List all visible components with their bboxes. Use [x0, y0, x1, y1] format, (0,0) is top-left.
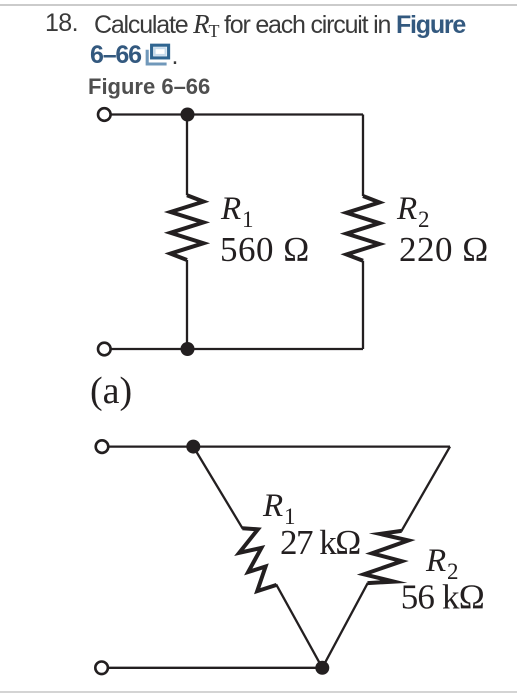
problem number 18: [45, 11, 78, 36]
svg-text:56 kΩ: 56 kΩ: [401, 578, 484, 617]
svg-text:27 kΩ: 27 kΩ: [280, 523, 360, 562]
wire: circuit (a) right vertical top: [362, 115, 364, 197]
svg-text:R: R: [220, 191, 241, 227]
problem text line 1: [94, 11, 465, 38]
junction node: circuit (a) bottom: [181, 342, 195, 356]
svg-text:220 Ω: 220 Ω: [399, 230, 489, 269]
resistor R2 220 ohm: [347, 196, 380, 261]
wire: circuit (b) right diagonal lower: [322, 583, 368, 668]
wire: circuit (b) right diagonal upper: [401, 447, 450, 532]
popup window icon: [144, 42, 174, 68]
wire: circuit (a) bottom rail: [110, 348, 363, 350]
resistor R1 27 kohm (diagonal): [239, 528, 276, 591]
svg-text:R: R: [396, 191, 417, 227]
wire: circuit (b) top rail: [109, 445, 451, 447]
svg-text:560 Ω: 560 Ω: [220, 230, 310, 269]
junction node: circuit (b) top: [186, 440, 200, 454]
terminal: circuit (b) bottom-left open circle: [95, 662, 108, 675]
svg-text:R: R: [262, 488, 283, 524]
svg-text:2: 2: [418, 207, 430, 232]
problem text line 2: 6-66 link: [90, 43, 141, 68]
wire: circuit (b) left diagonal lower: [276, 584, 322, 667]
period after link: [172, 44, 178, 69]
wire: circuit (b) bottom rail: [109, 667, 323, 669]
resistor R2 56 kohm (diagonal): [364, 531, 409, 583]
wire: circuit (a) top rail: [110, 113, 363, 115]
resistor R1 560 ohm: [171, 195, 204, 260]
wire: circuit (a) right vertical bottom: [362, 261, 364, 349]
wire: circuit (a) left vertical bottom: [186, 260, 188, 349]
terminal: circuit (b) top-left open circle: [96, 440, 109, 453]
figure caption: [88, 74, 210, 100]
junction node: circuit (b) bottom vertex: [315, 661, 329, 675]
terminal: circuit (a) top-left open circle: [98, 108, 111, 121]
junction node: circuit (a) top: [181, 108, 195, 122]
terminal: circuit (a) bottom-left open circle: [98, 343, 111, 356]
svg-text:(a): (a): [90, 370, 132, 412]
wire: circuit (a) left vertical top: [186, 115, 188, 196]
wire: circuit (b) left diagonal upper: [193, 447, 243, 529]
bottom divider line: [0, 691, 517, 693]
svg-text:R: R: [425, 543, 446, 579]
top divider line: [0, 4, 517, 6]
svg-text:1: 1: [242, 207, 254, 232]
